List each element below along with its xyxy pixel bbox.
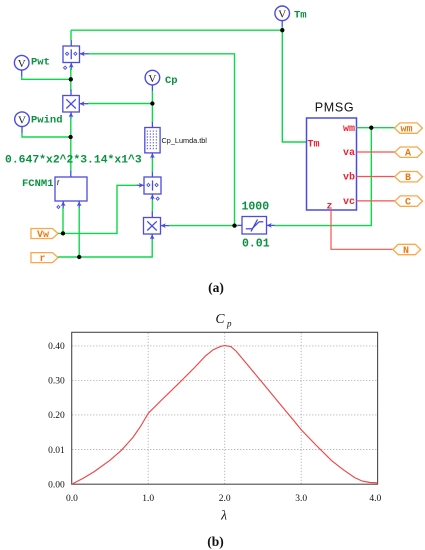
output tag wm [395, 123, 423, 135]
wire: PMSG wm output to tag wm [357, 127, 395, 129]
output tag A [395, 147, 423, 160]
wire: top rail from divider D1 output to Tm node [71, 29, 282, 31]
wire: divider U2 bottom to multiplier M2 top [151, 200, 153, 213]
divider U1 (Pwt/wm) [63, 40, 89, 70]
node J2 [68, 135, 72, 139]
svg-text:wm: wm [343, 124, 355, 135]
svg-text:0.00: 0.00 [48, 481, 65, 491]
x axis labels [66, 494, 382, 504]
svg-text:Cp: Cp [165, 75, 178, 87]
svg-text:ƒ: ƒ [57, 179, 60, 186]
svg-text:0.0: 0.0 [66, 494, 78, 504]
voltmeter V Cp [145, 70, 178, 91]
voltmeter V Pwt [14, 55, 50, 76]
PMSG machine block [307, 101, 357, 213]
svg-text:PMSG: PMSG [315, 101, 355, 115]
plot frame [72, 332, 378, 484]
wire: table bottom to divider U2 top [151, 158, 153, 172]
output tag N [393, 244, 421, 257]
svg-text:0.40: 0.40 [48, 342, 65, 352]
svg-text:4.0: 4.0 [369, 494, 381, 504]
svg-text:Vw: Vw [37, 230, 49, 241]
plot gridlines [72, 333, 377, 484]
wire: r tag through node J7 to M2 bottom input [58, 240, 152, 258]
svg-text:wm: wm [401, 124, 413, 135]
voltmeter V Tm [275, 6, 307, 27]
svg-text:vc: vc [343, 197, 355, 208]
svg-text:Pwt: Pwt [31, 57, 50, 69]
svg-text:vb: vb [343, 172, 355, 184]
FCNM1 block [22, 171, 87, 209]
wire: J6 up to FCNM1 input 1 [62, 208, 64, 234]
svg-text:Tm: Tm [308, 140, 320, 151]
multiplier M2 (r*wm) [144, 212, 170, 241]
svg-text:0.30: 0.30 [48, 377, 65, 387]
svg-text:1000: 1000 [242, 201, 270, 214]
plot title Cp [215, 311, 232, 329]
node J5 [232, 223, 236, 227]
input tag r [31, 253, 58, 265]
svg-text:z: z [327, 202, 333, 213]
green expression text [5, 155, 142, 167]
caption (a) [208, 280, 224, 295]
svg-text:V: V [278, 9, 286, 21]
svg-text:FCNM1: FCNM1 [22, 178, 54, 190]
wire: vc to tag C [357, 200, 396, 202]
output tag C [395, 196, 423, 209]
svg-text:0.20: 0.20 [48, 411, 65, 421]
wire: Pwt meter to node J1 [22, 76, 71, 79]
node J6 [61, 231, 65, 235]
Cp curve [72, 346, 378, 485]
svg-text:0.647*x2^2*3.14*x1^3: 0.647*x2^2*3.14*x1^3 [5, 155, 142, 167]
svg-text:0.01: 0.01 [48, 446, 65, 456]
svg-text:1.0: 1.0 [142, 494, 154, 504]
wire: Tm meter stub to node J4 [281, 27, 283, 31]
table block Cp_Lumda.tbl [145, 122, 208, 159]
node J4 [280, 28, 284, 32]
caption (b) [207, 534, 224, 549]
svg-text:0.01: 0.01 [242, 237, 270, 250]
wire: Cp meter down through node J3 to table block [151, 91, 153, 123]
svg-text:(a): (a) [208, 280, 224, 295]
svg-text:V: V [18, 58, 26, 70]
wire: vertical drop from Tm node down then right into PMSG Tm input [282, 30, 306, 142]
node J8 [369, 126, 373, 130]
svg-text:V: V [148, 73, 156, 85]
svg-text:V: V [18, 115, 26, 127]
wire: M2 right input from limiter output node J5 [169, 225, 235, 227]
wire: M1 bottom to FCNM1 output column [70, 117, 72, 172]
divider U2 (lambda = r*wm/Vw) [136, 172, 161, 201]
input tag Vw [31, 229, 58, 242]
svg-text:3.0: 3.0 [295, 494, 307, 504]
voltmeter V Pwind [15, 112, 63, 133]
svg-text:Tm: Tm [294, 10, 307, 22]
wire: limiter right input from wm column [275, 128, 372, 226]
wire: M1 right input from Cp node [88, 103, 152, 105]
wire: Vw tag through node J6 then up-right into divider U2 left input [58, 185, 137, 233]
svg-text:Pwind: Pwind [31, 115, 63, 127]
svg-text:va: va [343, 148, 355, 159]
node J7 [77, 255, 81, 259]
wire: rail from divider D1 right input to limiter output column [88, 54, 235, 226]
svg-text:C: C [215, 311, 225, 326]
wire: va to tag A [357, 151, 396, 153]
svg-text:(b): (b) [207, 534, 224, 549]
wire: Pwind meter to node J2 [22, 133, 71, 138]
node J1 [69, 77, 73, 81]
wire: vb to tag B [357, 176, 396, 178]
wire: node J1 column divider-bottom to multiplier M1 top [70, 68, 72, 91]
x axis title lambda [220, 508, 227, 523]
output tag B [395, 172, 423, 185]
node J3 [150, 101, 154, 105]
svg-text:2.0: 2.0 [219, 494, 231, 504]
svg-text:N: N [403, 246, 409, 257]
y axis labels [48, 342, 65, 490]
svg-text:A: A [405, 149, 411, 160]
svg-text:C: C [405, 198, 411, 209]
limiter block with labels 1000 / 0.01 [238, 201, 276, 251]
svg-text:p: p [226, 319, 232, 329]
multiplier M1 (Pwind*Cp) [63, 90, 89, 120]
svg-text:r: r [40, 254, 46, 265]
wire: z neutral down and right to tag N [331, 210, 393, 249]
wire: J7 up to FCNM1 input 2 [78, 208, 80, 258]
svg-text:B: B [405, 173, 411, 184]
svg-text:Cp_Lumda.tbl: Cp_Lumda.tbl [162, 136, 208, 145]
wire: divider output up to rail [70, 30, 72, 40]
svg-text:λ: λ [220, 508, 227, 523]
wire: limiter output to node J5 / M2 [234, 225, 238, 227]
